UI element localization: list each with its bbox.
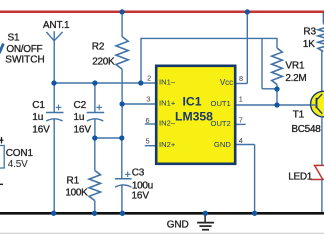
svg-text:C2: C2 — [74, 100, 87, 111]
svg-text:16V: 16V — [74, 125, 92, 136]
svg-text:5: 5 — [145, 136, 149, 145]
svg-text:IC1: IC1 — [183, 95, 202, 109]
svg-text:IN2+: IN2+ — [159, 140, 176, 149]
svg-text:2: 2 — [147, 74, 151, 83]
svg-text:1: 1 — [239, 94, 243, 103]
svg-text:R3: R3 — [303, 26, 316, 37]
svg-text:OUT2: OUT2 — [211, 119, 231, 128]
svg-text:Vcc: Vcc — [220, 78, 233, 87]
svg-text:CON1: CON1 — [6, 148, 34, 159]
svg-text:100K: 100K — [65, 188, 88, 199]
svg-text:220K: 220K — [92, 57, 115, 68]
svg-text:6: 6 — [145, 116, 149, 125]
svg-text:1u: 1u — [32, 112, 43, 123]
svg-text:GND: GND — [214, 140, 231, 149]
svg-text:C1: C1 — [32, 100, 45, 111]
svg-text:BC548: BC548 — [291, 124, 321, 135]
svg-text:IN2–: IN2– — [159, 118, 176, 127]
svg-text:R2: R2 — [92, 42, 105, 53]
svg-text:ON/OFF: ON/OFF — [6, 44, 42, 55]
svg-text:LED1: LED1 — [288, 172, 313, 183]
svg-text:1u: 1u — [74, 112, 85, 123]
svg-text:4.5V: 4.5V — [8, 159, 28, 170]
svg-text:SWITCH: SWITCH — [5, 55, 44, 66]
svg-text:16V: 16V — [32, 125, 50, 136]
svg-text:3: 3 — [146, 95, 150, 104]
svg-text:7: 7 — [239, 116, 243, 125]
svg-text:R1: R1 — [67, 176, 80, 187]
svg-text:ANT.1: ANT.1 — [43, 20, 70, 31]
svg-text:2.2M: 2.2M — [285, 73, 306, 84]
svg-text:S1: S1 — [8, 33, 21, 44]
svg-text:IN1–: IN1– — [159, 77, 176, 86]
svg-text:LM358: LM358 — [175, 109, 213, 123]
svg-text:IN1+: IN1+ — [159, 98, 176, 107]
svg-text:GND: GND — [167, 220, 189, 231]
svg-text:1K: 1K — [303, 39, 315, 50]
svg-text:VR1: VR1 — [285, 61, 305, 72]
svg-text:16V: 16V — [132, 191, 150, 202]
svg-text:8: 8 — [239, 74, 243, 83]
svg-text:4: 4 — [239, 136, 243, 145]
svg-text:C3: C3 — [132, 168, 145, 179]
svg-text:OUT1: OUT1 — [211, 99, 231, 108]
svg-text:T1: T1 — [293, 110, 305, 121]
